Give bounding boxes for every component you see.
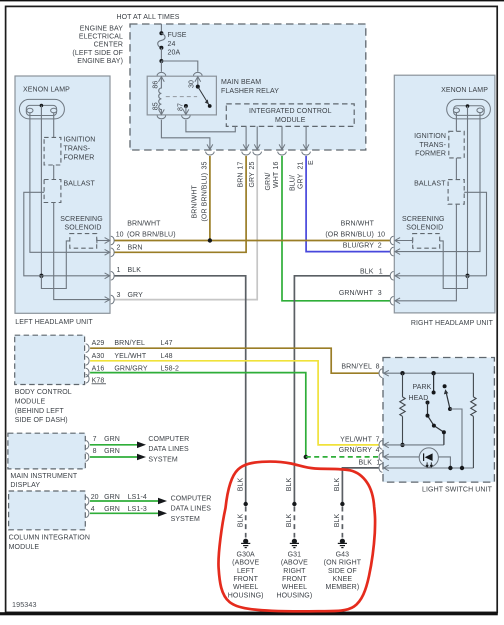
wire BRN/YEL A29 to light switch pin 8 bbox=[90, 348, 379, 373]
wire GRN/WHT pin16 vertical to right lamp pin3 bbox=[282, 156, 390, 301]
svg-text:BLK: BLK bbox=[237, 478, 244, 492]
svg-text:MAIN BEAM: MAIN BEAM bbox=[221, 79, 261, 86]
svg-text:RIGHT: RIGHT bbox=[283, 568, 306, 575]
connector 1 (right unit) bbox=[395, 273, 400, 279]
wire pin1 connector run (right) bbox=[395, 275, 486, 277]
svg-text:35: 35 bbox=[201, 162, 208, 170]
connector pin 25 at electrical center bbox=[253, 152, 262, 155]
connector pin 16 at electrical center bbox=[278, 152, 287, 155]
connector 3 (right unit) bbox=[395, 298, 400, 304]
wire ballast bottom to connector 3 (right) bbox=[395, 204, 456, 301]
thick bottom border line bbox=[0, 612, 498, 615]
wire YEL/WHT A30 to light switch pin 7 bbox=[90, 361, 379, 445]
connector 8 (MID) bbox=[86, 453, 89, 462]
label BODY CONTROL MODULE (BEHIND LEFT SIDE OF DASH) bbox=[15, 389, 72, 424]
node LED-BLK junction bbox=[448, 466, 452, 470]
svg-text:ENGINE BAY: ENGINE BAY bbox=[80, 25, 124, 32]
label IGNITION TRANS- FORMER (right) bbox=[414, 133, 446, 158]
wire switch 2 pivot to BLK bus bbox=[450, 409, 462, 468]
svg-text:FORMER: FORMER bbox=[64, 154, 95, 161]
svg-text:16: 16 bbox=[273, 162, 280, 170]
connector 1 (left unit) bbox=[105, 273, 110, 279]
svg-text:A29: A29 bbox=[92, 340, 105, 347]
integrated control module box bbox=[226, 104, 354, 127]
svg-text:25: 25 bbox=[249, 162, 256, 170]
svg-text:BLK: BLK bbox=[334, 478, 341, 492]
svg-text:1: 1 bbox=[376, 459, 380, 466]
connector 10 (right unit) bbox=[395, 238, 400, 244]
svg-text:HEAD: HEAD bbox=[409, 395, 429, 402]
wire bottom bus pin 7 bbox=[384, 444, 444, 446]
svg-text:4: 4 bbox=[91, 506, 95, 513]
wire ICM to pin 16 bbox=[281, 126, 283, 149]
node fuse output junction bbox=[159, 59, 163, 63]
svg-text:PARK: PARK bbox=[413, 384, 432, 391]
screening solenoid box (left) bbox=[70, 234, 97, 249]
connector 1 (light switch) bbox=[384, 465, 389, 471]
wire GRN pin 7 to data lines bbox=[90, 444, 138, 446]
wire relay 85 to pin 35 feed-through bbox=[161, 120, 210, 150]
wire BLU/GRY pin21 vertical to right lamp pin2 bbox=[306, 156, 390, 252]
connector 8 (light switch) bbox=[384, 370, 389, 376]
node BRN/WHT junction bbox=[208, 238, 212, 242]
svg-text:COLUMN INTEGRATION: COLUMN INTEGRATION bbox=[9, 534, 90, 541]
wire ballast right side to pin1 run (right) bbox=[464, 192, 486, 275]
wire ballast bottom to connector 3 (left) bbox=[54, 203, 109, 300]
wire lamp center to pin1 junction (left) bbox=[40, 106, 42, 276]
svg-text:L47: L47 bbox=[161, 340, 173, 347]
svg-text:30: 30 bbox=[189, 80, 196, 88]
svg-text:A30: A30 bbox=[92, 353, 105, 360]
wire lamp right terminal to ignition transformer (left) bbox=[53, 113, 55, 138]
svg-text:LEFT HEADLAMP UNIT: LEFT HEADLAMP UNIT bbox=[15, 319, 93, 326]
svg-text:SYSTEM: SYSTEM bbox=[148, 456, 177, 463]
svg-text:87: 87 bbox=[178, 103, 185, 111]
svg-text:TRANS-: TRANS- bbox=[64, 146, 91, 153]
wire ballast left side to pin1 feed (left) bbox=[24, 192, 44, 275]
relay terminal 87 connector bbox=[182, 115, 191, 118]
svg-text:8: 8 bbox=[93, 448, 97, 455]
connector 4 (CIM) bbox=[86, 509, 89, 518]
svg-text:1: 1 bbox=[379, 268, 383, 275]
svg-text:BRN/YEL: BRN/YEL bbox=[114, 340, 145, 347]
switch 2 arm with arrow bbox=[446, 392, 450, 409]
wire lamp left terminal to pin 2 (left) bbox=[30, 113, 109, 253]
svg-text:GRN: GRN bbox=[104, 448, 120, 455]
connector 2 (right unit) bbox=[395, 249, 400, 255]
wire pin1 junction to connector 1 (left) bbox=[41, 275, 109, 277]
wire BLK dashed to ground G31 bbox=[293, 507, 295, 538]
svg-text:10: 10 bbox=[116, 231, 124, 238]
svg-text:CENTER: CENTER bbox=[94, 42, 123, 49]
svg-text:BRN/WHT: BRN/WHT bbox=[192, 185, 199, 219]
connector 20 (CIM) bbox=[86, 497, 89, 506]
label COLUMN INTEGRATION MODULE bbox=[9, 534, 90, 551]
svg-text:(LEFT SIDE OF: (LEFT SIDE OF bbox=[72, 50, 123, 57]
engine bay electrical center box bbox=[130, 24, 366, 150]
label COMPUTER DATA LINES SYSTEM (MID) bbox=[148, 436, 189, 464]
svg-text:DATA LINES: DATA LINES bbox=[171, 506, 212, 513]
svg-text:YEL/WHT: YEL/WHT bbox=[340, 437, 372, 444]
node junction G43 bbox=[340, 502, 344, 506]
svg-text:SIDE OF DASH): SIDE OF DASH) bbox=[15, 417, 68, 424]
node resistor left bottom bbox=[400, 443, 404, 447]
node top bus left bbox=[400, 371, 404, 375]
wire GRN pin 4 to data lines bbox=[90, 512, 159, 514]
LED diode symbol bbox=[425, 453, 433, 461]
svg-text:(OR BRN/BLU): (OR BRN/BLU) bbox=[201, 173, 208, 222]
wire GRN pin 20 to data lines bbox=[90, 500, 159, 502]
svg-text:ENGINE BAY): ENGINE BAY) bbox=[77, 58, 123, 65]
svg-text:DISPLAY: DISPLAY bbox=[10, 482, 40, 489]
svg-text:7: 7 bbox=[376, 437, 380, 444]
svg-text:GRY: GRY bbox=[249, 172, 256, 188]
svg-text:BODY CONTROL: BODY CONTROL bbox=[15, 389, 72, 396]
relay contact 87 bbox=[184, 104, 188, 108]
connector 4 (light switch) bbox=[384, 454, 389, 460]
ignition transformer box (left) bbox=[44, 137, 61, 165]
svg-text:BALLAST: BALLAST bbox=[64, 180, 96, 187]
svg-text:20: 20 bbox=[91, 494, 99, 501]
fuse 24 20A bbox=[158, 31, 165, 50]
label ENGINE BAY ELECTRICAL CENTER bbox=[72, 25, 123, 65]
relay coil 86-85 bbox=[159, 77, 162, 115]
svg-text:FRONT: FRONT bbox=[282, 576, 307, 583]
ground symbol G43 bbox=[340, 539, 345, 544]
svg-text:1: 1 bbox=[117, 267, 121, 274]
connector 2 (left unit) bbox=[105, 249, 110, 255]
wire BRN pin17 vertical to left lamp pin2 bbox=[114, 156, 246, 252]
svg-text:3: 3 bbox=[117, 292, 121, 299]
relay switch blade bbox=[198, 87, 210, 106]
svg-text:GRN/WHT: GRN/WHT bbox=[339, 290, 374, 297]
svg-text:WHT: WHT bbox=[273, 171, 280, 188]
switch 2 contact bbox=[443, 384, 447, 388]
svg-text:17: 17 bbox=[237, 162, 244, 170]
label MAIN BEAM FLASHER RELAY bbox=[221, 79, 279, 95]
svg-text:WHEEL: WHEEL bbox=[233, 584, 258, 591]
svg-text:BLU/GRY: BLU/GRY bbox=[343, 243, 375, 250]
svg-text:7: 7 bbox=[93, 436, 97, 443]
svg-text:GRN: GRN bbox=[104, 506, 120, 513]
relay terminal 85 connector bbox=[157, 115, 166, 118]
main instrument display box bbox=[8, 433, 85, 469]
svg-text:(OR BRN/BLU): (OR BRN/BLU) bbox=[127, 231, 176, 238]
svg-text:WHEEL: WHEEL bbox=[282, 584, 307, 591]
wire from hot feed to fuse bbox=[160, 24, 162, 33]
svg-text:SCREENING: SCREENING bbox=[402, 216, 445, 223]
relay terminal 86 connector bbox=[157, 72, 166, 75]
svg-text:TRANS-: TRANS- bbox=[419, 142, 446, 149]
svg-text:(ABOVE: (ABOVE bbox=[232, 560, 259, 567]
svg-text:COMPUTER: COMPUTER bbox=[171, 495, 212, 502]
node junction G31 bbox=[292, 502, 296, 506]
wire GRY pin25 vertical to left lamp pin3 bbox=[114, 156, 257, 300]
svg-text:G31: G31 bbox=[288, 552, 302, 559]
wire BLK dashed to ground G30A bbox=[245, 507, 247, 538]
svg-text:YEL/WHT: YEL/WHT bbox=[114, 353, 146, 360]
label COMPUTER DATA LINES SYSTEM (CIM) bbox=[171, 495, 212, 523]
node switch2-BLK junction bbox=[460, 466, 464, 470]
svg-text:L58-2: L58-2 bbox=[161, 365, 179, 372]
svg-text:2: 2 bbox=[117, 245, 121, 252]
wire LED to BLK bus bbox=[438, 457, 450, 468]
resistor right (light switch) bbox=[472, 373, 474, 397]
ballast box (left) bbox=[44, 180, 61, 203]
wire BLK bus pin 1 bbox=[384, 467, 474, 469]
connector K78 bbox=[86, 375, 89, 384]
label FUSE 24 20A bbox=[168, 32, 187, 56]
svg-text:LS1-4: LS1-4 bbox=[128, 494, 147, 501]
svg-text:24: 24 bbox=[168, 41, 176, 48]
svg-text:HOUSING): HOUSING) bbox=[228, 592, 264, 599]
wire GRN/GRY pin 4 to LED bbox=[384, 456, 420, 458]
relay terminal 30 connector bbox=[194, 72, 203, 75]
switch HEAD wiper chain bbox=[426, 401, 430, 405]
svg-text:G30A: G30A bbox=[237, 552, 256, 559]
label SCREENING SOLENOID (right) bbox=[402, 216, 445, 231]
svg-text:20A: 20A bbox=[168, 50, 181, 57]
svg-text:MODULE: MODULE bbox=[275, 117, 306, 124]
svg-text:BLK: BLK bbox=[358, 459, 372, 466]
screening solenoid box (right) bbox=[413, 234, 440, 249]
label G30A bbox=[228, 552, 264, 600]
svg-text:GRN: GRN bbox=[104, 494, 120, 501]
wire fuse to junction bbox=[160, 48, 162, 61]
node right pin1 junction bbox=[465, 274, 469, 278]
svg-text:INTEGRATED CONTROL: INTEGRATED CONTROL bbox=[249, 108, 332, 115]
connector pin 21 at electrical center bbox=[302, 152, 311, 155]
relay switch common 30 bbox=[197, 77, 199, 87]
wire transformer to ballast (left) bbox=[53, 165, 55, 180]
svg-text:BRN/WHT: BRN/WHT bbox=[127, 221, 161, 228]
svg-text:3: 3 bbox=[378, 290, 382, 297]
svg-text:ELECTRICAL: ELECTRICAL bbox=[79, 34, 123, 41]
relay mechanical link (dashed) bbox=[166, 96, 197, 98]
right headlamp unit box bbox=[394, 75, 495, 313]
svg-text:MAIN INSTRUMENT: MAIN INSTRUMENT bbox=[10, 473, 77, 480]
svg-text:BLK: BLK bbox=[360, 268, 374, 275]
outer top border line bbox=[0, 0, 504, 1]
node GRN/GRY junction bbox=[304, 455, 308, 459]
ground symbol G31 bbox=[292, 539, 297, 544]
label IGNITION TRANS- FORMER (left) bbox=[64, 137, 96, 162]
wire top bus pin 8 bbox=[384, 372, 474, 374]
wire junction to screening solenoid (left) bbox=[41, 241, 71, 289]
ground symbol G30A bbox=[243, 539, 248, 544]
main beam flasher relay box bbox=[147, 76, 216, 115]
svg-text:85: 85 bbox=[152, 102, 159, 110]
connector pin 35 at electrical center bbox=[206, 152, 215, 155]
wire BLK dashed to ground G43 bbox=[341, 507, 343, 538]
svg-text:SIDE OF: SIDE OF bbox=[328, 568, 357, 575]
label SCREENING SOLENOID (left) bbox=[60, 216, 103, 231]
svg-text:K78: K78 bbox=[92, 377, 105, 384]
wire transformer to ballast (right) bbox=[455, 158, 457, 180]
wire lamp center vertical (right) bbox=[467, 106, 469, 276]
svg-text:BLK: BLK bbox=[237, 514, 244, 528]
wire lamp right terminal to pin 2 (right) bbox=[395, 113, 480, 252]
wire junction to screening solenoid (right) bbox=[438, 241, 468, 289]
svg-text:LEFT: LEFT bbox=[237, 568, 255, 575]
svg-text:BRN/WHT: BRN/WHT bbox=[341, 221, 375, 228]
svg-text:HOT AT ALL TIMES: HOT AT ALL TIMES bbox=[116, 14, 179, 21]
svg-text:L48: L48 bbox=[161, 353, 173, 360]
label G31 bbox=[276, 552, 312, 600]
svg-text:195343: 195343 bbox=[12, 600, 37, 609]
wire ICM to pin 21 bbox=[305, 126, 307, 149]
svg-text:10: 10 bbox=[377, 232, 385, 239]
wire GRN/GRY A16 solid run bbox=[90, 373, 306, 457]
svg-text:MEMBER): MEMBER) bbox=[326, 584, 360, 591]
svg-text:GRN/GRY: GRN/GRY bbox=[339, 447, 372, 454]
xenon lamp symbol (right) bbox=[447, 99, 491, 119]
svg-text:(ABOVE: (ABOVE bbox=[281, 560, 308, 567]
connector pin 17 at electrical center bbox=[242, 152, 251, 155]
ignition transformer box (right) bbox=[449, 131, 464, 158]
LED indicator circle bbox=[419, 448, 438, 467]
wire BRN/WHT pin35 vertical bbox=[209, 156, 211, 241]
svg-text:GRN/: GRN/ bbox=[265, 173, 272, 191]
wire relay 87 to ICM bbox=[186, 120, 235, 132]
wire BLK left lamp pin1 to ground G30A bbox=[114, 276, 246, 504]
connector A30 bbox=[86, 357, 89, 366]
svg-text:KNEE: KNEE bbox=[333, 576, 353, 583]
svg-text:XENON LAMP: XENON LAMP bbox=[23, 87, 70, 94]
node top bus switch bbox=[431, 371, 435, 375]
svg-text:SOLENOID: SOLENOID bbox=[406, 225, 443, 232]
connector 7 (MID) bbox=[86, 441, 89, 450]
svg-text:LIGHT SWITCH UNIT: LIGHT SWITCH UNIT bbox=[422, 486, 493, 493]
label INTEGRATED CONTROL MODULE bbox=[249, 108, 332, 124]
connector 7 (light switch) bbox=[384, 442, 389, 448]
connector A16 bbox=[86, 368, 89, 377]
svg-text:E: E bbox=[308, 160, 315, 165]
wire BLK light switch pin 1 to ground G43 bbox=[342, 468, 378, 504]
label G43 bbox=[324, 552, 362, 592]
svg-text:BLK: BLK bbox=[286, 514, 293, 528]
svg-text:BLK: BLK bbox=[286, 478, 293, 492]
svg-text:FUSE: FUSE bbox=[168, 32, 187, 39]
svg-text:SOLENOID: SOLENOID bbox=[65, 225, 102, 232]
wire junction to relay pin 30 bbox=[161, 61, 197, 72]
connector A29 bbox=[86, 344, 89, 353]
label MAIN INSTRUMENT DISPLAY bbox=[10, 473, 77, 489]
left headlamp unit box bbox=[15, 76, 110, 313]
svg-text:BLU/: BLU/ bbox=[289, 175, 296, 191]
svg-text:BRN: BRN bbox=[237, 172, 244, 187]
svg-text:GRY: GRY bbox=[297, 173, 304, 189]
svg-text:21: 21 bbox=[297, 162, 304, 170]
svg-text:GRN: GRN bbox=[104, 436, 120, 443]
LED arrows bbox=[426, 462, 428, 467]
node left pin1 junction bbox=[39, 274, 43, 278]
svg-text:(BEHIND LEFT: (BEHIND LEFT bbox=[15, 408, 65, 415]
ballast box (right) bbox=[448, 180, 464, 205]
svg-text:BLK: BLK bbox=[334, 514, 341, 528]
wire solenoid to connector 10 (left) bbox=[96, 238, 98, 243]
xenon lamp symbol (left) bbox=[19, 99, 64, 119]
red hand-drawn circle around grounds bbox=[218, 462, 375, 612]
svg-text:FLASHER RELAY: FLASHER RELAY bbox=[221, 88, 279, 95]
svg-text:XENON LAMP: XENON LAMP bbox=[441, 87, 488, 94]
svg-text:IGNITION: IGNITION bbox=[64, 137, 96, 144]
wire lamp left terminal to ignition transformer (right) bbox=[455, 113, 457, 132]
svg-text:FRONT: FRONT bbox=[233, 576, 258, 583]
wire BLK right lamp pin1 to ground G31 bbox=[294, 276, 390, 504]
svg-text:(ON RIGHT: (ON RIGHT bbox=[324, 560, 362, 567]
svg-text:IGNITION: IGNITION bbox=[414, 133, 446, 140]
wire ICM to pin 17 bbox=[245, 126, 247, 149]
connector 3 (left unit) bbox=[105, 297, 110, 303]
svg-text:2: 2 bbox=[378, 243, 382, 250]
svg-text:LS1-3: LS1-3 bbox=[128, 506, 147, 513]
svg-text:COMPUTER: COMPUTER bbox=[148, 436, 189, 443]
svg-text:BRN: BRN bbox=[128, 245, 143, 252]
svg-text:SYSTEM: SYSTEM bbox=[171, 516, 200, 523]
svg-text:BRN/YEL: BRN/YEL bbox=[341, 363, 372, 370]
svg-text:BALLAST: BALLAST bbox=[414, 180, 446, 187]
light switch unit box bbox=[383, 358, 494, 483]
svg-text:HOUSING): HOUSING) bbox=[276, 592, 312, 599]
resistor left (light switch) bbox=[402, 373, 404, 397]
svg-text:SCREENING: SCREENING bbox=[60, 216, 103, 223]
svg-text:G43: G43 bbox=[336, 552, 350, 559]
svg-text:FORMER: FORMER bbox=[415, 151, 446, 158]
svg-text:DATA LINES: DATA LINES bbox=[148, 446, 189, 453]
wire ICM to pin 25 bbox=[256, 126, 258, 149]
body control module box bbox=[15, 335, 85, 384]
wire GRN/GRY dashed to light switch pin 4 bbox=[306, 456, 379, 458]
svg-text:RIGHT HEADLAMP UNIT: RIGHT HEADLAMP UNIT bbox=[411, 320, 494, 327]
svg-text:BLK: BLK bbox=[128, 267, 142, 274]
svg-text:GRN/GRY: GRN/GRY bbox=[114, 365, 147, 372]
wire junction to relay pin 86 bbox=[160, 61, 162, 72]
svg-text:MODULE: MODULE bbox=[15, 399, 46, 406]
connector 10 (left unit) bbox=[105, 238, 110, 244]
svg-text:86: 86 bbox=[152, 81, 159, 89]
wire BRN/WHT horizontal to both lamp pin10 bbox=[114, 240, 390, 242]
node junction G30A bbox=[244, 502, 248, 506]
svg-text:GRY: GRY bbox=[128, 292, 144, 299]
svg-text:(OR BRN/BLU): (OR BRN/BLU) bbox=[325, 232, 374, 239]
svg-text:MODULE: MODULE bbox=[9, 544, 40, 551]
wire solenoid to connector 10 (right) bbox=[412, 238, 414, 243]
svg-text:A16: A16 bbox=[92, 365, 105, 372]
column integration module box bbox=[9, 491, 86, 530]
svg-text:4: 4 bbox=[376, 447, 380, 454]
wire GRN pin 8 to data lines bbox=[90, 456, 138, 458]
switch PARK contact bbox=[433, 373, 435, 392]
svg-text:8: 8 bbox=[376, 363, 380, 370]
